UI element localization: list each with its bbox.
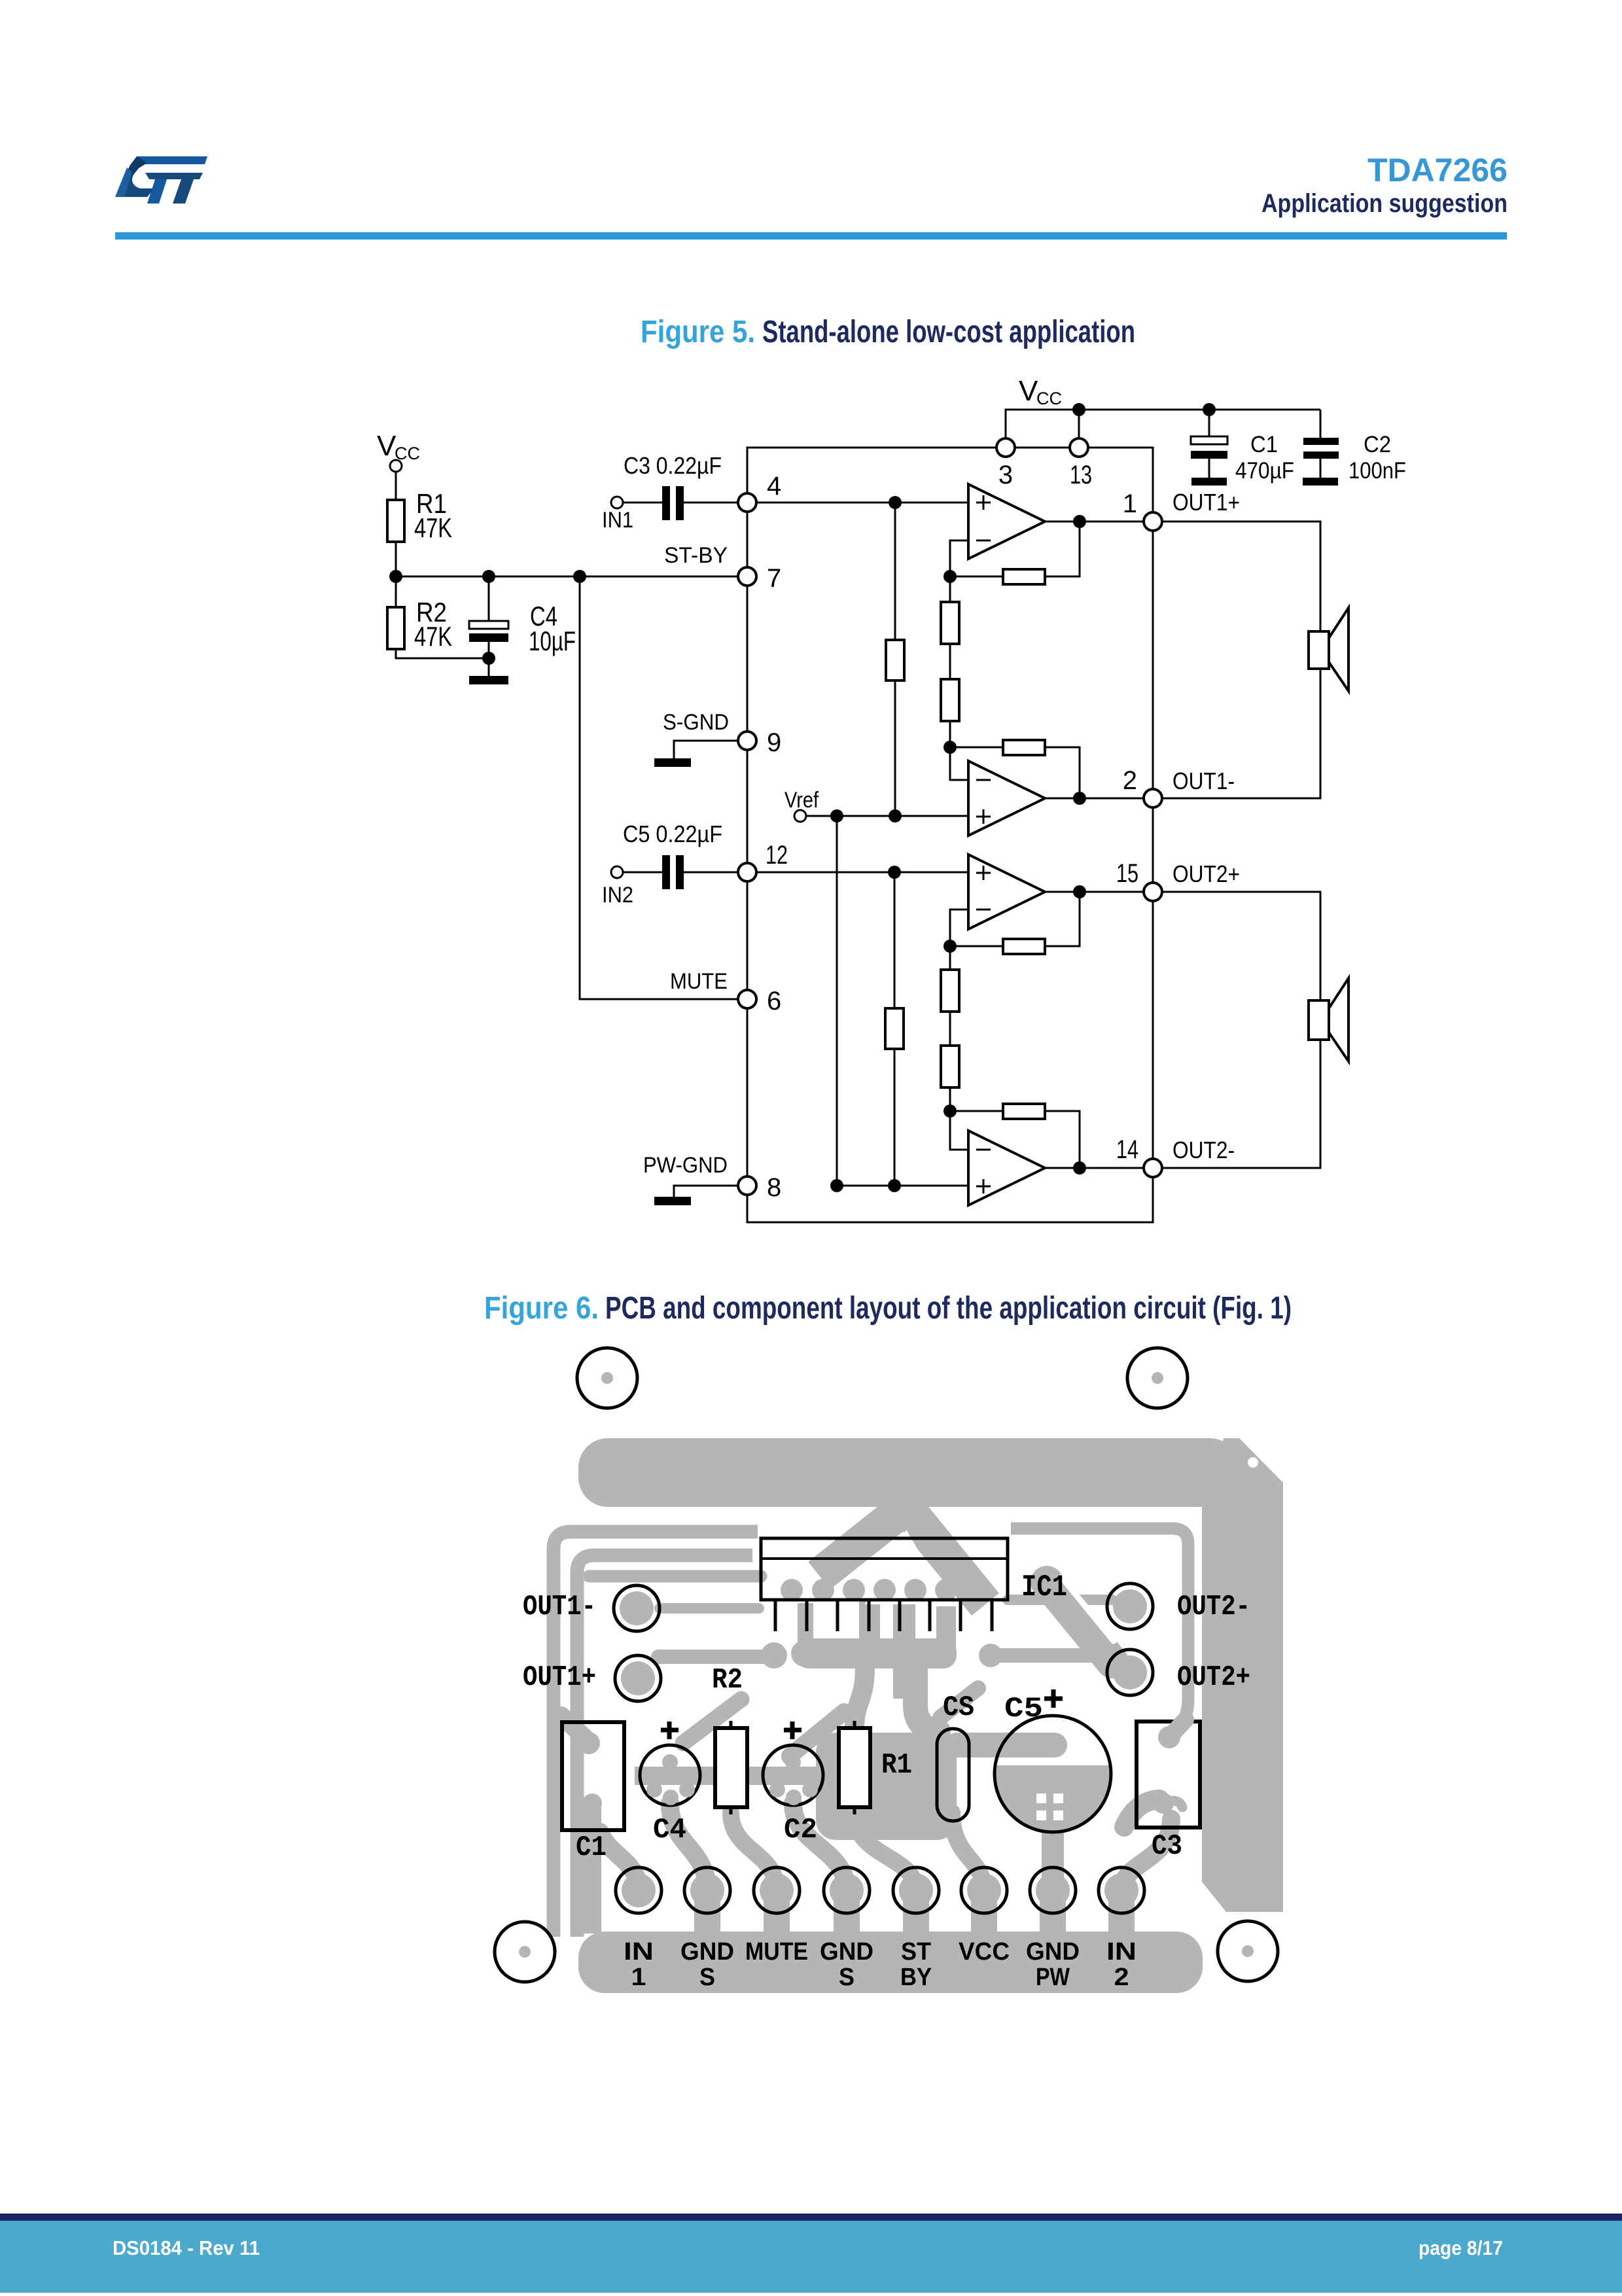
mounting hole bottom-right bbox=[1218, 1921, 1278, 1981]
mounting hole top-left bbox=[577, 1348, 637, 1408]
wire pin4 to op-amp U1A + bbox=[756, 502, 968, 504]
wire C2 to ground bbox=[1320, 459, 1322, 478]
wire ST-BY bus bbox=[396, 576, 739, 578]
label C4 10uF bbox=[529, 601, 576, 656]
svg-text:8: 8 bbox=[767, 1173, 781, 1202]
op-amp U2B bbox=[968, 1131, 1045, 1205]
ground below C1 bbox=[1191, 478, 1227, 486]
svg-text:IN1: IN1 bbox=[602, 508, 633, 533]
trace diag to C4 plus bbox=[683, 1699, 741, 1743]
Figure 6 caption bbox=[484, 1291, 1292, 1326]
pin 14 bbox=[1144, 1159, 1162, 1177]
node pin4 chain bbox=[889, 496, 902, 509]
svg-text:CS: CS bbox=[943, 1691, 974, 1724]
svg-text:IN: IN bbox=[1106, 1938, 1137, 1966]
wire Vref to op-amp U1B + bbox=[806, 815, 968, 817]
svg-text:V: V bbox=[377, 430, 397, 462]
C2 inner pads bbox=[769, 1754, 818, 1805]
svg-text:15: 15 bbox=[1116, 859, 1138, 888]
svg-text:VCC: VCC bbox=[959, 1938, 1010, 1966]
bottom pads row bbox=[616, 1867, 1144, 1913]
node Vref-R chain bbox=[889, 809, 902, 822]
trace outer L left bbox=[554, 1532, 758, 1937]
svg-text:3: 3 bbox=[998, 461, 1013, 489]
power trace diagonal to OUT2 bbox=[1047, 1582, 1112, 1662]
IC U1 body bbox=[747, 448, 1153, 1222]
pad OUT1- bbox=[614, 1585, 660, 1631]
wire U1A out to pin 1 bbox=[1045, 521, 1144, 523]
wire OUT1- to speaker 1 bbox=[1161, 669, 1320, 798]
label C2 100nF bbox=[1349, 432, 1406, 484]
svg-text:Vref: Vref bbox=[785, 788, 819, 813]
resistor fb1 bbox=[1003, 569, 1045, 584]
wire MUTE from bus bbox=[580, 576, 739, 999]
svg-text:1: 1 bbox=[631, 1964, 646, 1991]
C2 plus mark bbox=[784, 1722, 802, 1739]
resistor div1b bbox=[941, 679, 959, 721]
footer navy rule bbox=[0, 2214, 1622, 2221]
node rail C1 bbox=[1203, 403, 1216, 416]
trace blob at C2 top bbox=[781, 1747, 800, 1765]
wire C5 to pin 12 bbox=[684, 872, 739, 874]
copper pour corner bevel bbox=[1210, 1438, 1283, 1507]
pin 1 bbox=[1144, 512, 1162, 531]
power trace arch white wedge bbox=[865, 1530, 950, 1604]
trace C2 to pad4 bbox=[793, 1803, 847, 1891]
wire fb4 right bbox=[1045, 1111, 1080, 1168]
wire Vref branch to U2B + bbox=[837, 1185, 968, 1187]
trace C1 blob top bbox=[578, 1732, 602, 1813]
node U1A out bbox=[1073, 515, 1086, 528]
capacitor C3 bbox=[662, 486, 684, 520]
wire fb4 left bbox=[950, 1110, 1003, 1112]
wire div1 bottom bbox=[949, 721, 951, 747]
svg-text:IN: IN bbox=[624, 1938, 654, 1966]
wire IN1 to C3 bbox=[623, 502, 662, 504]
wire U2A inverting input bbox=[950, 910, 968, 946]
capacitor C4 body bbox=[640, 1745, 700, 1805]
resistor div2b bbox=[941, 1046, 959, 1087]
svg-text:MUTE: MUTE bbox=[745, 1938, 808, 1966]
wire div2 bottom bbox=[949, 1087, 951, 1111]
resistor fb4 bbox=[1003, 1104, 1045, 1119]
svg-text:470µF: 470µF bbox=[1235, 458, 1294, 484]
svg-text:2: 2 bbox=[1114, 1964, 1129, 1991]
svg-text:C2: C2 bbox=[784, 1814, 817, 1846]
C4 inner pads bbox=[646, 1754, 695, 1805]
wire chain1 lower bbox=[894, 680, 896, 816]
svg-text:S: S bbox=[699, 1964, 715, 1991]
trace diag near CS bbox=[940, 1688, 978, 1718]
svg-text:C4: C4 bbox=[653, 1814, 686, 1846]
resistor div2a bbox=[941, 970, 959, 1012]
svg-text:C1: C1 bbox=[576, 1831, 607, 1864]
node U2A fb bbox=[943, 940, 957, 953]
svg-text:47K: 47K bbox=[414, 512, 452, 543]
copper strip behind C4 C2 bbox=[635, 1767, 821, 1785]
wire OUT1+ to speaker 1 bbox=[1161, 521, 1320, 631]
copper pour top band bbox=[578, 1438, 1239, 1507]
wire pin 9 to ground bbox=[674, 741, 739, 758]
wire U2A out to pin 15 bbox=[1045, 891, 1144, 893]
svg-text:OUT2-: OUT2- bbox=[1172, 1137, 1235, 1163]
pad labels row 2 bbox=[631, 1964, 1129, 1991]
resistor fb3 bbox=[1003, 939, 1045, 954]
wire OUT2+ to speaker 2 bbox=[1161, 892, 1320, 1000]
wire R1 to ST-BY bus bbox=[395, 542, 397, 576]
svg-text:R1: R1 bbox=[881, 1749, 912, 1782]
wire fb2 left bbox=[950, 747, 1003, 749]
C3 inner traces bbox=[1153, 1720, 1186, 1814]
wire divider ch2 top bbox=[949, 946, 951, 970]
node branch corner bbox=[830, 1179, 843, 1192]
pin 3 bbox=[996, 438, 1015, 457]
wire Vcc to R1 bbox=[395, 472, 397, 500]
wire chain2 lower bbox=[894, 1049, 896, 1186]
svg-text:MUTE: MUTE bbox=[670, 969, 728, 994]
header rule bbox=[115, 232, 1507, 239]
wire U2B out to pin 14 bbox=[1045, 1167, 1144, 1169]
svg-text:ST: ST bbox=[901, 1938, 931, 1966]
wire chain2 upper bbox=[894, 872, 896, 1008]
resistor R1 body bbox=[839, 1721, 870, 1814]
svg-text:Application suggestion: Application suggestion bbox=[1261, 189, 1507, 218]
svg-text:OUT1-: OUT1- bbox=[1172, 768, 1235, 794]
traces inside IC bbox=[781, 1579, 988, 1601]
pin 7 bbox=[738, 567, 756, 586]
IN1 terminal bbox=[611, 497, 623, 508]
wire bus to C4 bbox=[488, 576, 490, 621]
wire U1B out to pin 2 bbox=[1045, 798, 1144, 800]
speaker LS1 bbox=[1309, 608, 1349, 691]
trace OUT1+ bbox=[658, 1650, 779, 1664]
pin 12 bbox=[738, 863, 756, 881]
svg-text:ST-BY: ST-BY bbox=[664, 543, 728, 568]
power trace white slash bbox=[1061, 1577, 1114, 1641]
capacitor C5 bbox=[662, 855, 684, 889]
svg-text:14: 14 bbox=[1116, 1135, 1138, 1164]
trace stubs pins to pads bbox=[805, 1600, 946, 1649]
capacitor C5 body bbox=[995, 1716, 1111, 1832]
resistor R1 bbox=[387, 500, 404, 542]
pad copper discs bbox=[620, 1589, 1147, 1907]
wire fb3 right bbox=[1045, 892, 1080, 946]
wire U2B inverting input bbox=[950, 1111, 968, 1150]
ground below C2 bbox=[1303, 478, 1338, 486]
node rail pin13 bbox=[1072, 403, 1085, 416]
node pin12 chain bbox=[888, 866, 901, 879]
C5 plus mark bbox=[1044, 1689, 1063, 1708]
svg-text:BY: BY bbox=[900, 1964, 932, 1991]
wire C1 to ground bbox=[1208, 459, 1210, 478]
capacitor C3 body bbox=[1137, 1722, 1200, 1828]
svg-text:C2: C2 bbox=[1364, 432, 1391, 457]
svg-text:page 8/17: page 8/17 bbox=[1419, 2236, 1503, 2259]
svg-text:R2: R2 bbox=[712, 1664, 743, 1697]
svg-text:GND: GND bbox=[820, 1938, 873, 1966]
svg-text:IN2: IN2 bbox=[602, 883, 633, 908]
trace C4 to pad2 bbox=[670, 1803, 707, 1891]
svg-text:1: 1 bbox=[1123, 489, 1137, 518]
svg-text:PW-GND: PW-GND bbox=[643, 1153, 728, 1178]
svg-text:TDA7266: TDA7266 bbox=[1367, 152, 1507, 188]
svg-text:C5 0.22µF: C5 0.22µF bbox=[623, 821, 722, 847]
pin 13 bbox=[1070, 438, 1088, 457]
Figure 5 caption bbox=[641, 315, 1135, 349]
pad down stubs bbox=[707, 1891, 1121, 1940]
svg-text:Stand-alone low-cost applicati: Stand-alone low-cost application bbox=[762, 315, 1135, 349]
wire divider ch1 top bbox=[949, 576, 951, 602]
resistor div1a bbox=[941, 602, 959, 644]
wire U1A inverting input bbox=[950, 540, 968, 576]
trace OUT1- to IC bbox=[660, 1603, 759, 1614]
pin 4 bbox=[738, 493, 756, 512]
copper mid mass bbox=[816, 1733, 957, 1840]
svg-text:DS0184 - Rev 11: DS0184 - Rev 11 bbox=[113, 2236, 260, 2259]
wire fb1 left bbox=[950, 576, 1003, 578]
trace C5 upper bbox=[957, 1733, 1055, 1757]
node bus-MUTE bbox=[573, 570, 586, 583]
mounting hole top-right bbox=[1127, 1348, 1188, 1408]
ground below C4 bbox=[469, 676, 508, 684]
svg-text:12: 12 bbox=[766, 841, 788, 870]
node Vref-branch bbox=[830, 809, 843, 822]
svg-text:S-GND: S-GND bbox=[663, 710, 729, 735]
wire Vcc top rail bbox=[1006, 410, 1320, 448]
svg-text:Figure 6.: Figure 6. bbox=[484, 1291, 599, 1326]
trace C1 down bbox=[583, 1803, 601, 1934]
capacitor C2 bbox=[1303, 438, 1339, 459]
svg-text:OUT2-: OUT2- bbox=[1177, 1591, 1250, 1623]
node U1B out bbox=[1073, 792, 1086, 805]
resistor fb2 bbox=[1003, 740, 1045, 755]
wire div1 mid bbox=[949, 644, 951, 679]
wire chain1 upper bbox=[894, 503, 896, 640]
label R2 47K bbox=[414, 597, 452, 652]
svg-text:Figure 5.: Figure 5. bbox=[641, 315, 755, 349]
wire OUT2- to speaker 2 bbox=[1161, 1040, 1320, 1168]
trace OUT2+ bbox=[992, 1648, 1116, 1663]
resistor chain1 (input divider ch1) bbox=[886, 640, 904, 680]
Vcc label (left) bbox=[377, 430, 420, 463]
footer band bbox=[0, 2221, 1622, 2293]
svg-text:C3: C3 bbox=[1152, 1830, 1182, 1863]
svg-text:OUT2+: OUT2+ bbox=[1172, 860, 1240, 887]
svg-text:7: 7 bbox=[767, 564, 781, 593]
node U2B out bbox=[1073, 1161, 1086, 1174]
wire C4 to ground bbox=[488, 642, 490, 676]
node bus-C4 bbox=[482, 570, 495, 583]
node C4 bottom bbox=[482, 652, 495, 665]
wire pin12 to op-amp U2A + bbox=[756, 872, 968, 874]
mounting hole bottom-left bbox=[495, 1922, 555, 1982]
node U1A fb bbox=[943, 570, 957, 583]
capacitor C1 bbox=[1191, 436, 1227, 459]
copper pour right arm bbox=[1202, 1483, 1283, 1912]
node U1B fb bbox=[943, 741, 957, 754]
wire pin 8 to ground bbox=[674, 1186, 739, 1197]
node bus-left bbox=[389, 570, 402, 583]
trace C3 to pad8 bbox=[1121, 1819, 1171, 1891]
wire fb1 right bbox=[1045, 521, 1080, 576]
trace thin to right arm bbox=[1011, 1528, 1188, 1734]
IC1 package bbox=[761, 1538, 1008, 1631]
pad labels row 1 bbox=[624, 1938, 1137, 1966]
svg-text:PCB and component layout of th: PCB and component layout of the applicat… bbox=[605, 1291, 1292, 1326]
svg-text:S: S bbox=[839, 1964, 855, 1991]
IC pin pads bbox=[761, 1638, 1002, 1669]
wire pin 13 stub bbox=[1078, 410, 1080, 439]
pad OUT1+ bbox=[615, 1655, 661, 1701]
svg-text:V: V bbox=[1019, 375, 1038, 407]
pin 9 bbox=[738, 732, 756, 750]
trace OUT2- to IC bbox=[1008, 1595, 1112, 1605]
op-amp U1A bbox=[968, 484, 1045, 559]
svg-text:6: 6 bbox=[767, 987, 781, 1016]
Vcc terminal (left) bbox=[390, 460, 402, 472]
capacitor C1 body bbox=[562, 1722, 624, 1830]
svg-text:47K: 47K bbox=[414, 621, 452, 652]
copper pour bottom label band bbox=[578, 1932, 1203, 1993]
capacitor CS body bbox=[937, 1729, 969, 1821]
wire C3 to pin 4 bbox=[684, 502, 739, 504]
wire U1B inverting input bbox=[950, 747, 968, 780]
label R1 47K bbox=[414, 488, 452, 543]
trace IN2 pad to C3 hook bbox=[1124, 1799, 1159, 1827]
ground S-GND bbox=[654, 758, 691, 767]
Vref terminal bbox=[794, 810, 806, 822]
svg-text:C3 0.22µF: C3 0.22µF bbox=[624, 452, 722, 479]
wire bus to R2 bbox=[395, 576, 397, 607]
op-amp U1B bbox=[968, 761, 1045, 836]
svg-text:C1: C1 bbox=[1250, 432, 1278, 457]
svg-text:OUT1+: OUT1+ bbox=[523, 1661, 596, 1694]
svg-text:OUT1-: OUT1- bbox=[523, 1591, 596, 1623]
svg-text:4: 4 bbox=[767, 472, 781, 501]
svg-text:OUT2+: OUT2+ bbox=[1177, 1661, 1250, 1694]
wire div2 mid bbox=[949, 1012, 951, 1046]
svg-text:2: 2 bbox=[1123, 766, 1137, 795]
C4 plus mark bbox=[661, 1722, 679, 1739]
capacitor C4 bbox=[469, 621, 508, 642]
capacitor C2 body bbox=[763, 1745, 823, 1805]
svg-text:GND: GND bbox=[680, 1938, 734, 1966]
pin 2 bbox=[1144, 789, 1162, 807]
trace R1 to pad5 bbox=[855, 1812, 916, 1891]
pin 6 bbox=[738, 990, 756, 1008]
trace CS to pad6 bbox=[952, 1812, 984, 1891]
ground PW-GND bbox=[654, 1197, 691, 1205]
pad OUT2+ bbox=[1107, 1650, 1153, 1695]
power trace arch under IC bbox=[819, 1505, 985, 1699]
svg-text:IC1: IC1 bbox=[1021, 1570, 1067, 1604]
trace R2 to pad3 bbox=[731, 1812, 777, 1891]
wire R2 bottom to C4 bottom bbox=[396, 649, 489, 658]
wire Vref down-branch bbox=[836, 816, 838, 1186]
trace C1 diag bbox=[561, 1716, 589, 1742]
node U2A out bbox=[1073, 885, 1086, 898]
node branch chain2 bbox=[888, 1179, 901, 1192]
svg-text:9: 9 bbox=[767, 728, 781, 757]
IN2 terminal bbox=[611, 866, 623, 878]
svg-text:OUT1+: OUT1+ bbox=[1172, 489, 1240, 516]
pin 15 bbox=[1144, 883, 1162, 901]
resistor R2 body bbox=[715, 1721, 747, 1814]
svg-text:GND: GND bbox=[1026, 1938, 1080, 1966]
wire fb2 right bbox=[1045, 747, 1080, 798]
wire C2 top lead bbox=[1320, 410, 1322, 438]
svg-text:13: 13 bbox=[1070, 461, 1092, 489]
svg-text:C5: C5 bbox=[1004, 1693, 1043, 1725]
ST logo bbox=[115, 156, 207, 203]
resistor R2 bbox=[387, 607, 404, 649]
Vcc label (top) bbox=[1019, 375, 1062, 408]
pad OUT2- bbox=[1107, 1583, 1153, 1629]
svg-text:10µF: 10µF bbox=[529, 626, 576, 656]
speaker LS2 bbox=[1309, 978, 1349, 1061]
label C1 470uF bbox=[1235, 432, 1294, 484]
node U2B fb bbox=[943, 1104, 957, 1118]
trace stub left of IC bbox=[589, 1570, 761, 1583]
copper pour arm white dot bbox=[1248, 1457, 1258, 1468]
wire IN2 to C5 bbox=[623, 872, 662, 874]
op-amp U2A bbox=[968, 855, 1045, 929]
trace pad1 up to C1 bbox=[600, 1832, 639, 1890]
trace C5 to pad7 bbox=[1042, 1819, 1064, 1891]
resistor chain2 (input divider ch2) bbox=[885, 1008, 904, 1049]
wire fb3 left bbox=[950, 945, 1003, 947]
wire C1 top lead bbox=[1208, 410, 1210, 436]
pin 8 bbox=[738, 1176, 756, 1195]
svg-text:CC: CC bbox=[1036, 389, 1062, 408]
traces under IC S-curves bbox=[794, 1667, 938, 1752]
svg-text:PW: PW bbox=[1036, 1964, 1070, 1991]
trace inner L left bbox=[577, 1555, 752, 1937]
svg-text:100nF: 100nF bbox=[1349, 458, 1406, 484]
